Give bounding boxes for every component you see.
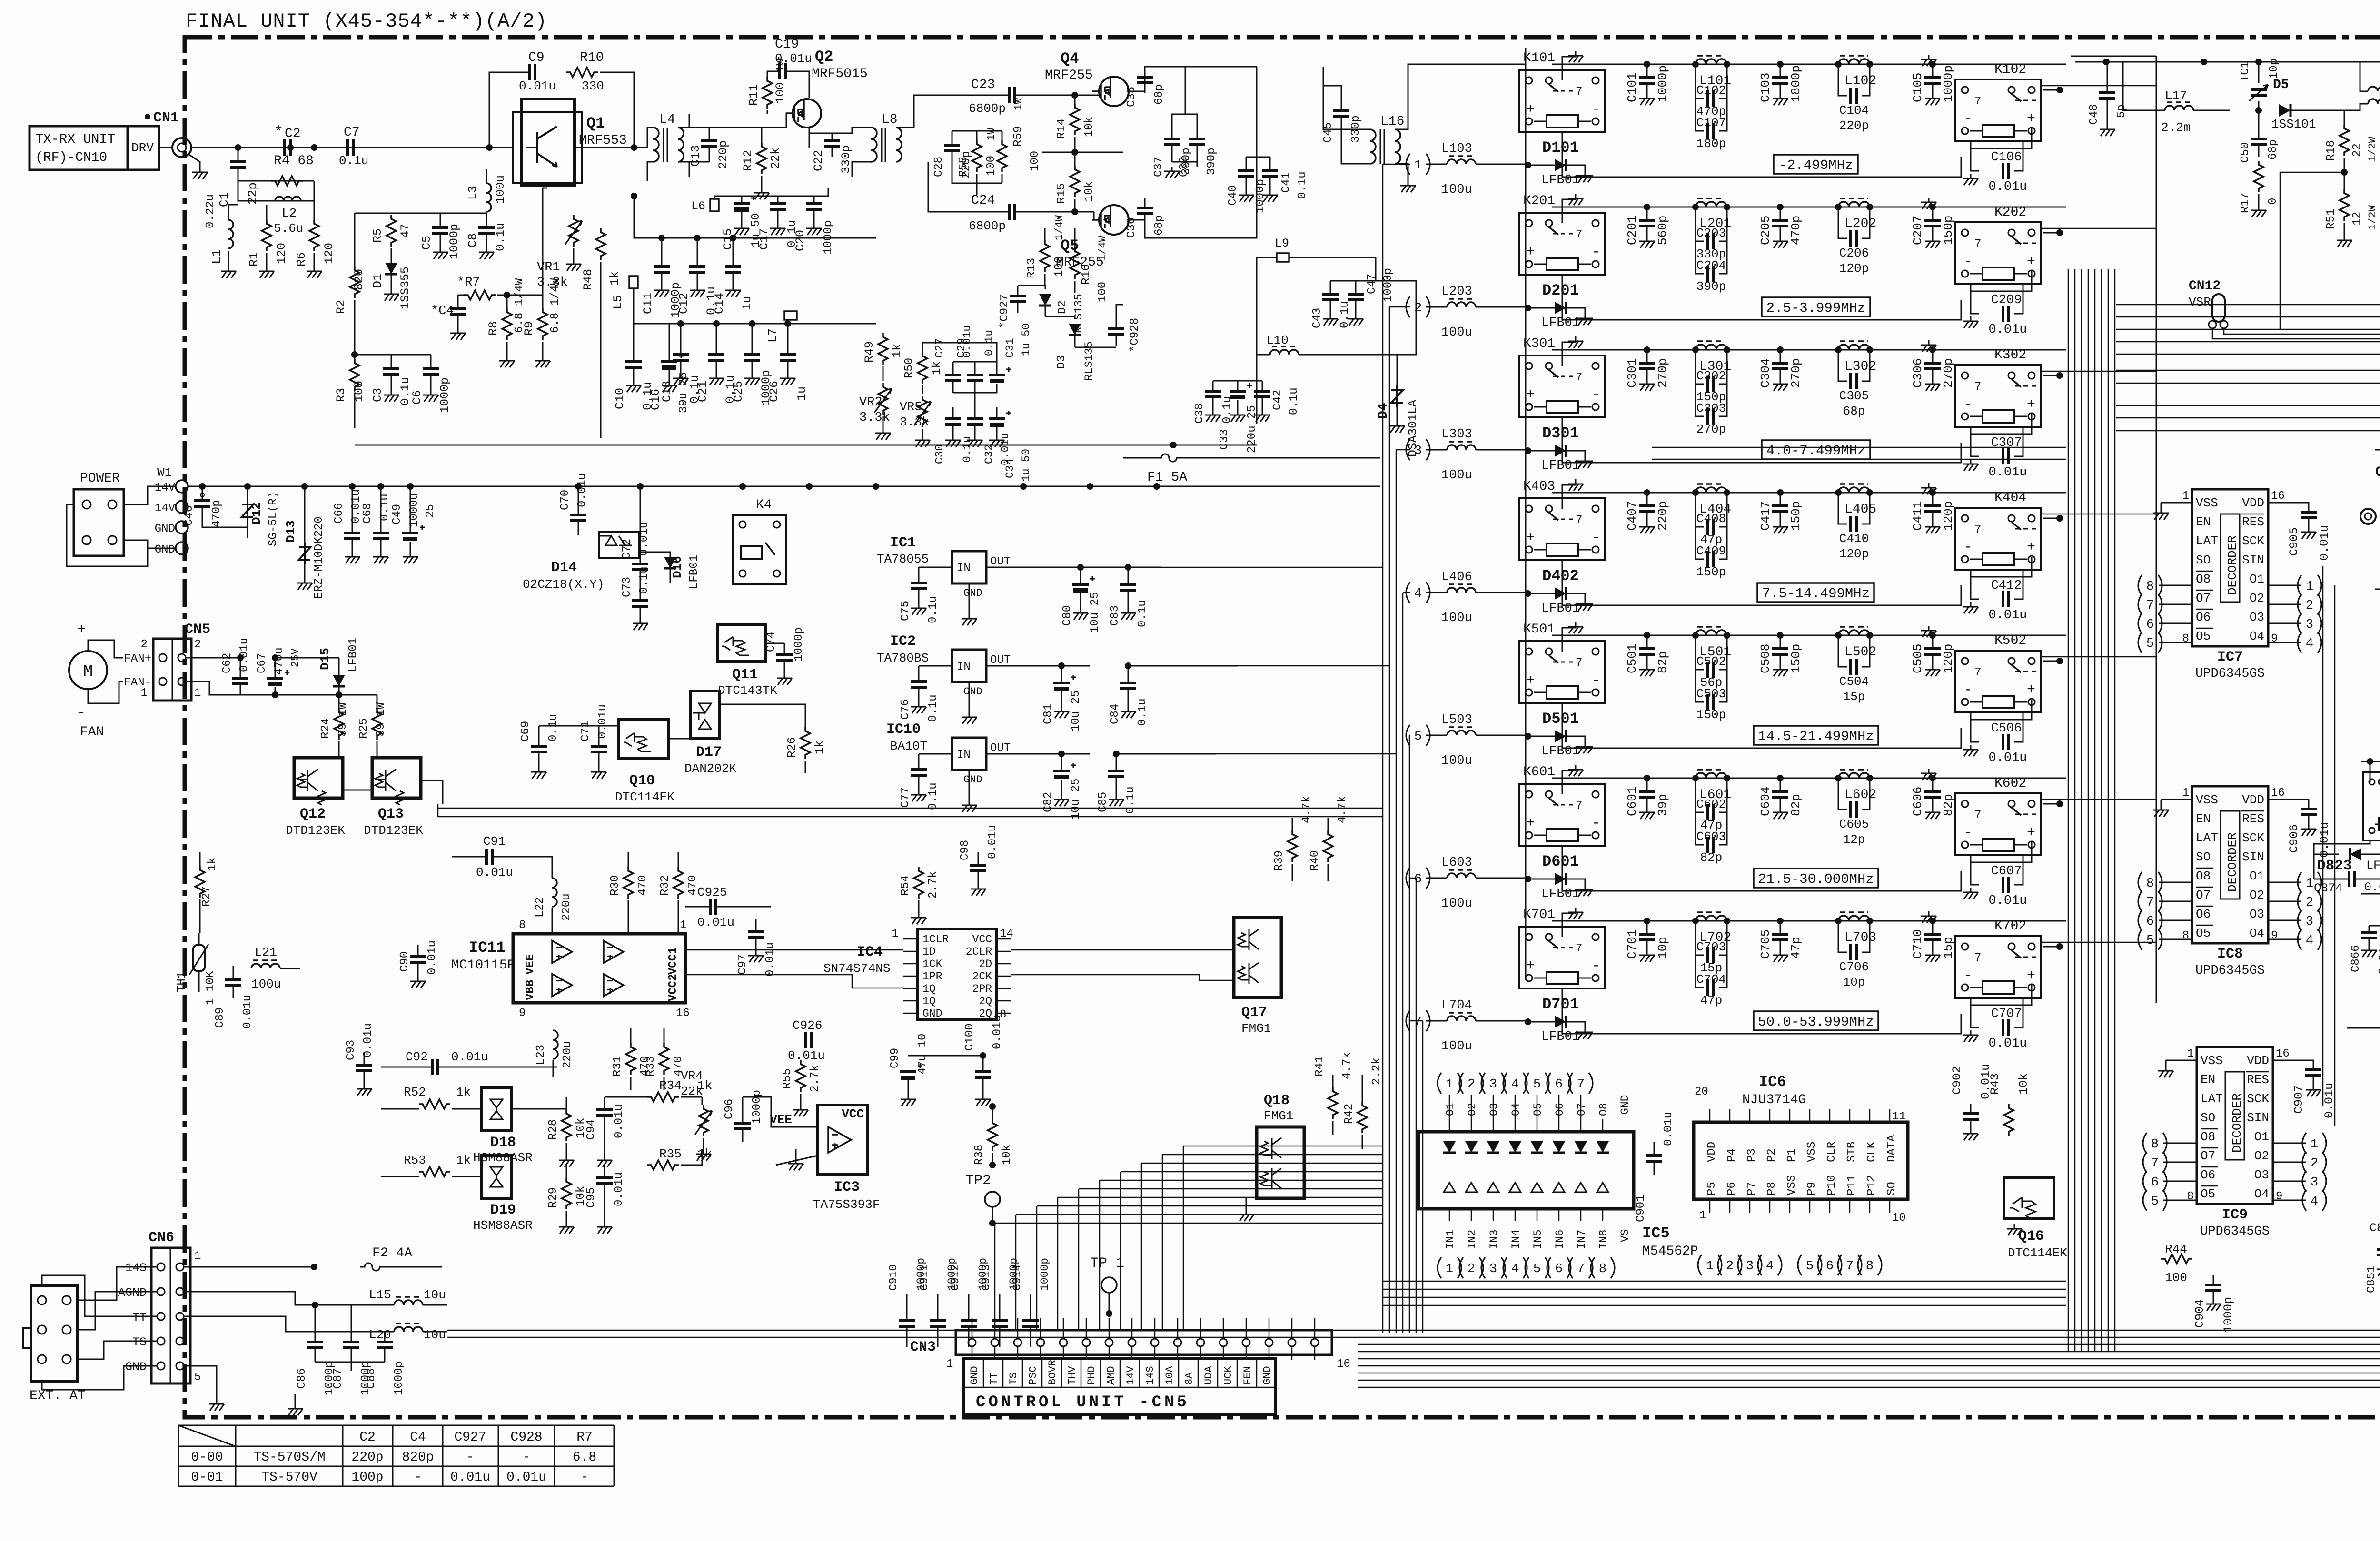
frequency label box — [1757, 583, 1874, 602]
svg-text:C911: C911 — [918, 1264, 931, 1291]
capacitor C90 0.01u — [417, 945, 419, 957]
svg-text:D12: D12 — [249, 502, 264, 524]
svg-text:R17: R17 — [2239, 193, 2252, 213]
svg-text:C874: C874 — [2314, 881, 2342, 895]
svg-text:K404: K404 — [1994, 491, 2026, 505]
svg-text:150p: 150p — [1789, 644, 1803, 673]
svg-text:R18: R18 — [2325, 140, 2338, 161]
svg-text:C203: C203 — [1696, 226, 1726, 240]
capacitor C24 6800p — [1009, 204, 1015, 220]
resistor R24 39 1W — [338, 695, 340, 708]
svg-text:K501: K501 — [1523, 622, 1555, 637]
capacitor C99 47u 10 — [900, 1070, 916, 1073]
svg-text:2: 2 — [141, 638, 148, 651]
svg-text:3: 3 — [1746, 1259, 1754, 1274]
svg-text:5: 5 — [1533, 1077, 1541, 1092]
svg-text:0.01u: 0.01u — [350, 489, 363, 524]
svg-text:C913: C913 — [980, 1264, 992, 1291]
node arc (5) — [2138, 632, 2142, 653]
svg-text:C95: C95 — [585, 1187, 598, 1208]
svg-text:C205: C205 — [1758, 216, 1773, 245]
svg-text:C605: C605 — [1839, 817, 1869, 831]
svg-text:K601: K601 — [1523, 765, 1555, 780]
svg-text:100: 100 — [1029, 151, 1041, 171]
svg-text:C905: C905 — [2287, 527, 2301, 556]
svg-text:0.01u: 0.01u — [613, 1104, 625, 1138]
svg-text:POWER: POWER — [80, 471, 120, 486]
svg-text:R11: R11 — [747, 84, 761, 106]
svg-text:16: 16 — [676, 1007, 690, 1020]
svg-text:R50: R50 — [903, 358, 916, 378]
svg-text:RES: RES — [2242, 515, 2264, 529]
svg-text:C77: C77 — [899, 787, 912, 808]
svg-text:FAN+: FAN+ — [124, 652, 151, 665]
node arc 2 — [1718, 1255, 1722, 1275]
pin 14V — [176, 480, 188, 493]
svg-text:W1: W1 — [157, 465, 172, 480]
svg-text:VDD: VDD — [2242, 496, 2264, 510]
svg-text:C602: C602 — [1696, 797, 1726, 811]
svg-text:C38: C38 — [1193, 403, 1206, 424]
svg-text:DECORDER: DECORDER — [2225, 535, 2240, 595]
ground — [1577, 885, 1593, 896]
svg-text:14V: 14V — [155, 482, 176, 494]
svg-text:R6: R6 — [295, 252, 308, 267]
svg-text:R28: R28 — [547, 1119, 560, 1140]
wire input line — [191, 147, 513, 148]
capacitor C1 22p — [238, 148, 239, 162]
svg-text:0.1u: 0.1u — [927, 596, 940, 623]
svg-text:VEE: VEE — [770, 1113, 792, 1127]
svg-text:VR1: VR1 — [537, 260, 560, 275]
wire supply node — [634, 196, 876, 238]
svg-text:MRF553: MRF553 — [579, 133, 627, 148]
node arc (4) — [2302, 1190, 2306, 1211]
frequency label box — [1762, 440, 1870, 459]
capacitor C15 1u 50 — [734, 202, 750, 205]
svg-text:SCK: SCK — [2242, 534, 2264, 548]
svg-text:L3: L3 — [466, 186, 480, 200]
svg-text:5: 5 — [2146, 637, 2154, 651]
svg-text:0.01u: 0.01u — [1988, 608, 2027, 622]
svg-text:1 10K: 1 10K — [204, 970, 217, 1005]
svg-text:D3: D3 — [1055, 355, 1068, 369]
ground — [2153, 805, 2169, 817]
inductor L2 5.6u — [238, 181, 314, 201]
ground — [1963, 745, 1978, 756]
svg-text:1: 1 — [194, 687, 201, 700]
svg-text:1/2W: 1/2W — [2367, 205, 2379, 230]
svg-text:D1: D1 — [371, 274, 385, 288]
potentiometer VR4 22k — [699, 1105, 708, 1136]
capacitor C45 330p — [1341, 98, 1342, 111]
svg-text:Q13: Q13 — [378, 806, 404, 822]
box EXT. AT connector — [31, 1286, 78, 1381]
capacitor C504 — [1838, 635, 1847, 667]
svg-text:LFB01: LFB01 — [1541, 744, 1580, 759]
ground — [1963, 174, 1978, 185]
capacitor C105 — [1932, 64, 1934, 78]
svg-text:VS: VS — [1619, 1229, 1631, 1242]
diode D1 1SS355 — [391, 248, 392, 263]
node arc 2 — [1459, 1073, 1463, 1094]
svg-text:VR4: VR4 — [681, 1069, 703, 1083]
connector CN19 — [2360, 509, 2376, 524]
svg-text:12: 12 — [2351, 212, 2364, 226]
wire row rail to common bus — [2043, 232, 2060, 234]
svg-text:0.1u: 0.1u — [927, 694, 940, 722]
resistor R48 1k — [596, 228, 605, 260]
inductor L703 — [1838, 916, 1870, 921]
svg-text:TT: TT — [988, 1373, 1000, 1385]
capacitor C39 390p — [1197, 125, 1198, 139]
svg-text:LFB01: LFB01 — [688, 555, 701, 589]
svg-text:C14: C14 — [713, 293, 726, 314]
ground — [1577, 742, 1593, 753]
svg-text:1000p: 1000p — [751, 1090, 764, 1124]
svg-text:220p: 220p — [1656, 501, 1670, 531]
svg-text:3.3k: 3.3k — [900, 415, 929, 429]
svg-text:8: 8 — [1599, 1262, 1606, 1276]
svg-text:0.01u: 0.01u — [576, 473, 589, 507]
svg-text:330: 330 — [582, 79, 604, 93]
svg-text:2.7k: 2.7k — [927, 871, 940, 899]
svg-text:6: 6 — [2146, 915, 2154, 929]
svg-text:10p: 10p — [1843, 975, 1865, 989]
svg-text:0.1u: 0.1u — [638, 566, 651, 594]
svg-text:SIN: SIN — [2247, 1111, 2269, 1125]
svg-text:C80: C80 — [1061, 605, 1074, 626]
svg-text:K502: K502 — [1994, 633, 2026, 648]
svg-text:0.01u: 0.01u — [638, 522, 651, 556]
svg-text:O7: O7 — [2201, 1149, 2215, 1163]
svg-text:VBB: VBB — [524, 980, 537, 1000]
svg-text:MC10115P: MC10115P — [451, 958, 515, 973]
svg-text:+: + — [1526, 387, 1535, 403]
inductor L603 — [1447, 873, 1476, 878]
diode D17 DAN202K — [690, 691, 720, 739]
svg-text:R1: R1 — [247, 252, 261, 267]
node arc (4) — [2298, 632, 2301, 653]
capacitor C43 0.1u — [1330, 281, 1331, 294]
svg-text:C39: C39 — [1178, 157, 1190, 177]
diode D101 — [1555, 159, 1566, 171]
svg-text:IN8: IN8 — [1597, 1230, 1610, 1249]
diode D15 LFB01 — [338, 658, 340, 675]
inductor L10 — [1270, 350, 1299, 355]
svg-text:8: 8 — [2146, 580, 2154, 594]
svg-text:47u 10: 47u 10 — [916, 1034, 929, 1075]
capacitor C904 1000p — [2213, 1275, 2214, 1285]
svg-text:UCK: UCK — [1222, 1366, 1234, 1385]
svg-text:VR2: VR2 — [859, 395, 883, 410]
svg-text:C99: C99 — [889, 1048, 902, 1068]
capacitor C605 — [1838, 778, 1847, 810]
svg-text:K4: K4 — [756, 498, 772, 513]
svg-text:0.01u: 0.01u — [697, 915, 734, 929]
svg-text:R40: R40 — [1309, 850, 1321, 871]
resistor R35 1k — [647, 1160, 679, 1170]
svg-text:R43: R43 — [1988, 1073, 2002, 1095]
diode D601 — [1555, 873, 1566, 885]
svg-text:C409: C409 — [1696, 544, 1726, 558]
svg-text:220u 25: 220u 25 — [1246, 405, 1259, 453]
svg-text:8: 8 — [1866, 1259, 1874, 1274]
svg-text:P1: P1 — [1785, 1148, 1798, 1162]
svg-text:150p: 150p — [1941, 216, 1955, 245]
capacitor C607 — [1971, 855, 1979, 885]
svg-text:4.7k: 4.7k — [1341, 1052, 1354, 1079]
relay K101 — [1519, 70, 1605, 132]
capacitor C407 — [1646, 493, 1648, 506]
node arc 7 — [1569, 1257, 1573, 1278]
svg-text:470u: 470u — [273, 647, 286, 675]
wire bus left vertical (band select) — [1382, 164, 1384, 1333]
svg-text:0: 0 — [2267, 198, 2280, 205]
svg-text:IN4: IN4 — [1510, 1230, 1522, 1249]
svg-text:C410: C410 — [1839, 532, 1869, 546]
node arc (3) — [2298, 910, 2301, 931]
capacitor C77 0.1u — [918, 754, 920, 770]
svg-text:100: 100 — [352, 381, 366, 402]
svg-text:9: 9 — [2271, 632, 2278, 645]
svg-text:C904: C904 — [2193, 1299, 2207, 1328]
node arc (3) — [2298, 613, 2301, 634]
svg-text:7: 7 — [1577, 1262, 1585, 1276]
svg-text:C928: C928 — [510, 1430, 542, 1445]
node arc (8) — [2138, 872, 2142, 893]
svg-text:C106: C106 — [1991, 150, 2022, 165]
svg-text:10u: 10u — [424, 1288, 446, 1302]
thermistor TH1 10K — [193, 945, 205, 971]
wire filter rail — [1552, 635, 2066, 636]
svg-text:IC2: IC2 — [890, 633, 916, 650]
svg-text:1000p: 1000p — [2221, 1297, 2235, 1333]
capacitor C74 1000p — [784, 643, 785, 654]
svg-text:5: 5 — [1414, 730, 1422, 744]
svg-text:C46: C46 — [183, 505, 196, 526]
svg-text:9: 9 — [2271, 929, 2278, 942]
svg-text:CONTROL UNIT -CN5: CONTROL UNIT -CN5 — [976, 1393, 1190, 1412]
capacitor C927 — [1017, 286, 1019, 296]
svg-text:TS-570V: TS-570V — [261, 1470, 317, 1485]
svg-text:R27: R27 — [200, 886, 213, 907]
svg-text:6: 6 — [1414, 872, 1422, 887]
svg-text:0.01u: 0.01u — [991, 1015, 1004, 1049]
svg-text:O5: O5 — [2196, 926, 2211, 940]
svg-text:8: 8 — [2151, 1137, 2159, 1152]
svg-text:0.01u: 0.01u — [2322, 1083, 2336, 1118]
svg-text:LFB01: LFB01 — [1541, 602, 1580, 616]
diode D5 1SS101 — [2279, 104, 2291, 117]
transistor Q2 MRF5015 — [793, 99, 821, 128]
svg-text:C91: C91 — [483, 834, 506, 849]
svg-text:LFB01: LFB01 — [1541, 459, 1580, 473]
wire K102 outputs to C48 rail — [2041, 85, 2156, 87]
svg-text:1u 50: 1u 50 — [1020, 323, 1032, 356]
node arc (8) — [2138, 575, 2142, 596]
capacitor C83 0.1u — [1128, 567, 1129, 584]
capacitor C204 — [1696, 241, 1704, 274]
capacitor C13 220p — [709, 128, 710, 141]
svg-text:0.01u: 0.01u — [775, 51, 812, 66]
svg-text:FAN: FAN — [80, 725, 104, 740]
svg-text:1k: 1k — [813, 741, 826, 754]
svg-text:O4: O4 — [2254, 1187, 2269, 1201]
svg-text:C204: C204 — [1696, 258, 1726, 273]
capacitor C33 220u 25 — [1237, 381, 1239, 391]
capacitor C38 0.1u — [1212, 381, 1214, 391]
node arc 4 — [1503, 1073, 1507, 1094]
svg-text:C606: C606 — [1911, 787, 1925, 816]
ground — [2158, 1066, 2173, 1077]
svg-text:SCK: SCK — [2247, 1092, 2269, 1106]
svg-text:100: 100 — [2165, 1271, 2187, 1285]
capacitor C417 — [1780, 493, 1781, 506]
svg-text:L405: L405 — [1844, 502, 1876, 517]
svg-text:10u 25: 10u 25 — [1070, 779, 1082, 820]
relay K102 — [1955, 79, 2041, 141]
svg-text:HSM88ASR: HSM88ASR — [473, 1218, 533, 1233]
svg-text:0.1u: 0.1u — [547, 714, 560, 741]
svg-text:FEN: FEN — [1242, 1366, 1254, 1385]
svg-text:R53: R53 — [404, 1153, 426, 1167]
diode D501 — [1555, 730, 1566, 742]
svg-text:7: 7 — [1414, 1015, 1422, 1029]
svg-text:UPD6345GS: UPD6345GS — [2195, 667, 2265, 681]
capacitor C21 0.1u — [716, 324, 717, 355]
svg-text:C304: C304 — [1758, 358, 1773, 388]
svg-text:390p: 390p — [1205, 148, 1218, 175]
svg-text:O4: O4 — [2250, 629, 2264, 643]
capacitor C36 68p — [1144, 198, 1146, 208]
svg-text:UDA: UDA — [1203, 1366, 1215, 1385]
capacitor C41 0.1u — [1269, 157, 1271, 170]
svg-text:8A: 8A — [1183, 1372, 1195, 1385]
svg-text:+: + — [1526, 101, 1535, 118]
svg-text:L9: L9 — [1275, 237, 1289, 250]
svg-text:CN1: CN1 — [153, 110, 179, 126]
svg-text:C50: C50 — [2239, 142, 2252, 163]
svg-text:R16: R16 — [1080, 264, 1093, 285]
inductor L15 10u — [394, 1300, 423, 1305]
svg-text:F1 5A: F1 5A — [1147, 470, 1187, 485]
svg-text:EXT. AT: EXT. AT — [30, 1389, 86, 1403]
IC IC8 UPD6345GS — [2192, 786, 2268, 943]
node arc (2) — [2298, 594, 2301, 615]
svg-text:R5: R5 — [371, 228, 385, 243]
svg-text:C925: C925 — [697, 885, 727, 899]
svg-text:LFB01: LFB01 — [1541, 887, 1580, 901]
svg-text:P8: P8 — [1765, 1182, 1778, 1195]
svg-text:3: 3 — [1489, 1077, 1497, 1092]
svg-text:1/4W: 1/4W — [1097, 235, 1109, 261]
svg-text:-: - — [1964, 396, 1973, 413]
resistor R8 6.8 1/4W — [506, 295, 508, 308]
wire filter input bus left side — [1525, 48, 1527, 980]
capacitor C302 — [1696, 350, 1704, 384]
relay K502 — [1955, 651, 2041, 712]
svg-text:D402: D402 — [1542, 567, 1579, 585]
capacitor C68 0.1u — [380, 486, 382, 533]
node arc 6 — [1547, 1073, 1551, 1094]
svg-text:IC9: IC9 — [2222, 1207, 2248, 1223]
wire row C top rail — [2347, 1027, 2380, 1029]
svg-text:O7: O7 — [1576, 1103, 1588, 1116]
svg-text:R52: R52 — [404, 1085, 426, 1099]
inductor L3 100u — [486, 169, 487, 183]
svg-text:1000p: 1000p — [393, 1361, 406, 1395]
svg-text:C22: C22 — [812, 150, 825, 171]
ground — [1568, 51, 1583, 62]
svg-text:L7: L7 — [766, 328, 780, 343]
inductor L21 100u — [251, 964, 280, 968]
capacitor C902 0.01u — [1970, 1104, 1972, 1114]
transistor Q5 MRF255 — [1099, 205, 1129, 235]
svg-text:14: 14 — [1000, 928, 1013, 940]
capacitor C7 0.1u — [347, 139, 353, 156]
svg-text:D4: D4 — [1376, 403, 1391, 419]
svg-text:1u: 1u — [795, 386, 809, 401]
svg-text:0.01u: 0.01u — [519, 79, 556, 93]
capacitor C85 0.1u — [1116, 754, 1117, 771]
inductor L302 — [1838, 345, 1870, 350]
capacitor C100 0.01u — [982, 1056, 984, 1072]
diode D3 RLS135 — [1069, 324, 1081, 335]
svg-text:TX-RX UNIT: TX-RX UNIT — [35, 132, 115, 147]
svg-text:+: + — [1526, 530, 1535, 546]
svg-text:K201: K201 — [1523, 194, 1555, 208]
svg-text:1: 1 — [892, 928, 899, 940]
svg-text:O6: O6 — [2196, 610, 2211, 624]
svg-text:DTD123EK: DTD123EK — [286, 823, 345, 838]
capacitor C8 0.1u — [486, 213, 487, 227]
svg-text:IC11: IC11 — [469, 939, 506, 957]
svg-text:2.5-3.999MHz: 2.5-3.999MHz — [1766, 300, 1866, 316]
resistor R16 100 1/4W — [1074, 228, 1076, 247]
resistor R18 22 1/2W — [2344, 110, 2345, 125]
svg-text:0.1u: 0.1u — [1288, 387, 1300, 415]
svg-text:IN3: IN3 — [1488, 1230, 1500, 1249]
svg-text:SO: SO — [2201, 1111, 2215, 1125]
svg-text:0.01u: 0.01u — [986, 825, 999, 859]
svg-text:C412: C412 — [1991, 579, 2022, 593]
capacitor C49 1000u 25 — [410, 486, 411, 533]
wire — [714, 196, 814, 197]
svg-text:-: - — [77, 705, 86, 721]
wire lower supply — [634, 288, 876, 324]
inductor L601 — [1696, 773, 1727, 778]
capacitor C705 — [1780, 921, 1781, 934]
svg-text:R30: R30 — [609, 875, 622, 896]
svg-text:11: 11 — [1892, 1110, 1906, 1123]
relay K202 — [1955, 222, 2041, 284]
svg-text:R14: R14 — [1055, 119, 1068, 139]
svg-text:C408: C408 — [1696, 512, 1726, 526]
node arc (8) — [2143, 1133, 2147, 1154]
svg-text:K302: K302 — [1994, 348, 2026, 363]
svg-text:100u: 100u — [1441, 468, 1472, 483]
svg-text:C12: C12 — [677, 293, 691, 314]
svg-text:C35: C35 — [1125, 87, 1138, 107]
wire row bottom — [1562, 560, 1961, 605]
svg-text:*C927: *C927 — [998, 294, 1011, 328]
svg-text:0.1u: 0.1u — [1136, 600, 1149, 627]
svg-text:R3: R3 — [334, 388, 348, 402]
svg-text:47p: 47p — [1789, 937, 1803, 959]
svg-text:820: 820 — [352, 269, 366, 290]
svg-text:-: - — [523, 1450, 531, 1465]
